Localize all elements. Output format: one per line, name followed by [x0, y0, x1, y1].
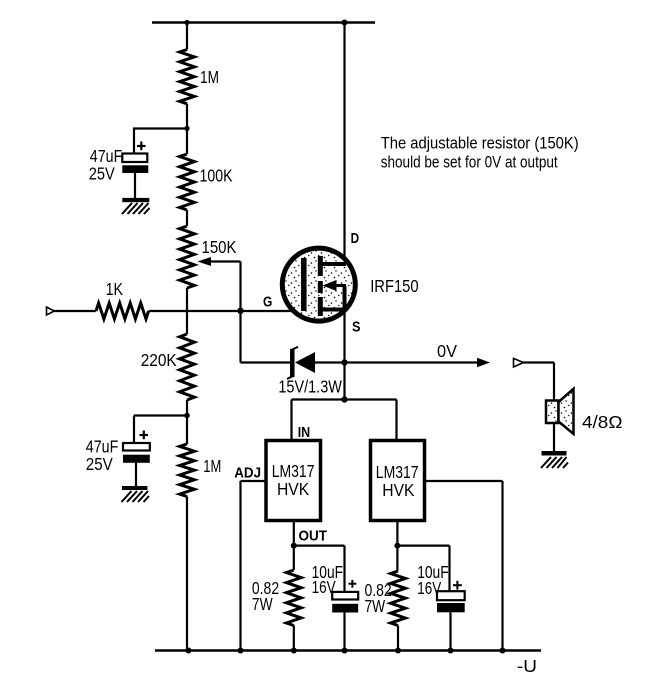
- svg-text:7W: 7W: [252, 594, 273, 614]
- svg-text:25V: 25V: [89, 164, 115, 184]
- svg-text:IN: IN: [298, 424, 311, 441]
- svg-text:ADJ: ADJ: [234, 465, 261, 482]
- svg-text:7W: 7W: [365, 596, 386, 616]
- svg-text:100K: 100K: [200, 166, 233, 186]
- svg-text:should be set for 0V at output: should be set for 0V at output: [381, 153, 558, 172]
- svg-text:S: S: [352, 319, 361, 336]
- svg-text:D: D: [351, 230, 360, 247]
- svg-text:1M: 1M: [200, 67, 219, 87]
- svg-text:The adjustable resistor (150K): The adjustable resistor (150K): [381, 134, 579, 153]
- svg-text:150K: 150K: [202, 237, 237, 257]
- svg-text:G: G: [263, 294, 272, 311]
- svg-text:0V: 0V: [437, 341, 457, 361]
- svg-text:4/8Ω: 4/8Ω: [582, 412, 623, 432]
- svg-text:16V: 16V: [417, 578, 441, 598]
- svg-text:HVK: HVK: [382, 480, 414, 500]
- svg-text:LM317: LM317: [272, 461, 315, 481]
- svg-text:15V/1.3W: 15V/1.3W: [278, 377, 342, 397]
- svg-text:LM317: LM317: [376, 462, 419, 482]
- svg-text:16V: 16V: [312, 577, 336, 597]
- svg-text:-U: -U: [517, 656, 537, 676]
- svg-text:HVK: HVK: [277, 479, 309, 499]
- svg-text:IRF150: IRF150: [370, 276, 419, 296]
- svg-text:25V: 25V: [86, 454, 113, 474]
- svg-text:1K: 1K: [106, 279, 124, 299]
- svg-text:1M: 1M: [203, 456, 221, 476]
- svg-text:OUT: OUT: [299, 528, 328, 545]
- svg-text:220K: 220K: [141, 350, 177, 370]
